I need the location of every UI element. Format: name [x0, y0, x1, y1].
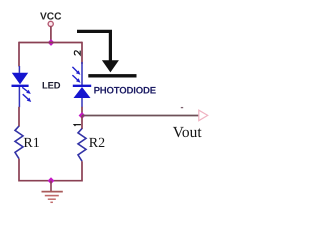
- wire bottom rail: [19, 180, 82, 182]
- wire Vout: [82, 115, 199, 117]
- svg-text:Vout: Vout: [173, 124, 203, 141]
- wire VCC stub: [50, 26, 52, 42]
- photodiode D2: [72, 62, 91, 107]
- wire photodiode to node B: [81, 107, 83, 116]
- off-page connector Vout: [199, 110, 208, 121]
- junction node A: [48, 39, 55, 46]
- wire right branch upper: [81, 42, 83, 64]
- resistor R2: [78, 129, 86, 162]
- svg-text:PHOTODIODE: PHOTODIODE: [94, 86, 157, 97]
- junction ground node: [48, 177, 55, 184]
- svg-text:R2: R2: [89, 136, 105, 151]
- junction node B: [79, 112, 86, 119]
- wire top rail: [19, 42, 82, 44]
- wire R1 to bottom rail: [18, 159, 20, 182]
- pin number 2: [74, 51, 80, 55]
- ground: [42, 181, 63, 203]
- pin number 1: [74, 125, 81, 126]
- wire LED to R1: [18, 107, 20, 127]
- LED D1: [12, 66, 32, 107]
- svg-text:LED: LED: [42, 80, 61, 91]
- wire R2 to bottom rail: [81, 161, 83, 181]
- power symbol VCC: [40, 12, 62, 27]
- photodiode surface bar: [88, 74, 136, 77]
- incident light arrow: [77, 31, 119, 72]
- wire left branch upper: [18, 42, 20, 67]
- small tick on Vout wire: [181, 107, 183, 109]
- svg-text:VCC: VCC: [40, 12, 62, 23]
- wire node B to R2: [81, 116, 83, 130]
- resistor R1: [15, 126, 23, 159]
- svg-text:R1: R1: [23, 136, 39, 151]
